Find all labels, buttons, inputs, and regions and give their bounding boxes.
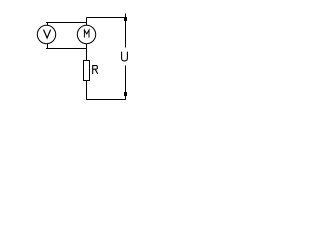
voltmeter V1 circle — [37, 25, 55, 43]
node top terminal dot — [124, 17, 127, 21]
wire top rail right — [87, 17, 127, 19]
wire bottom rail — [86, 99, 126, 101]
node U-line bottom segment — [125, 66, 127, 100]
wire M bottom stub to resistor top — [86, 44, 88, 61]
wire resistor bottom stub — [86, 81, 88, 101]
motor M1 circle — [77, 25, 95, 43]
motor M1 label — [84, 30, 89, 37]
wire bottom of parallel section — [46, 48, 87, 50]
node U-line top segment — [125, 14, 127, 48]
resistor R label — [93, 66, 98, 74]
wire top rail left (V top to M top column) — [46, 22, 87, 24]
wire M top step — [86, 18, 88, 26]
wire V bottom stub — [47, 44, 49, 49]
node bottom terminal dot — [124, 92, 127, 96]
resistor R body — [84, 61, 90, 81]
net label U — [122, 52, 128, 61]
voltmeter V1 label — [44, 30, 51, 38]
wire V top stub — [47, 23, 49, 26]
